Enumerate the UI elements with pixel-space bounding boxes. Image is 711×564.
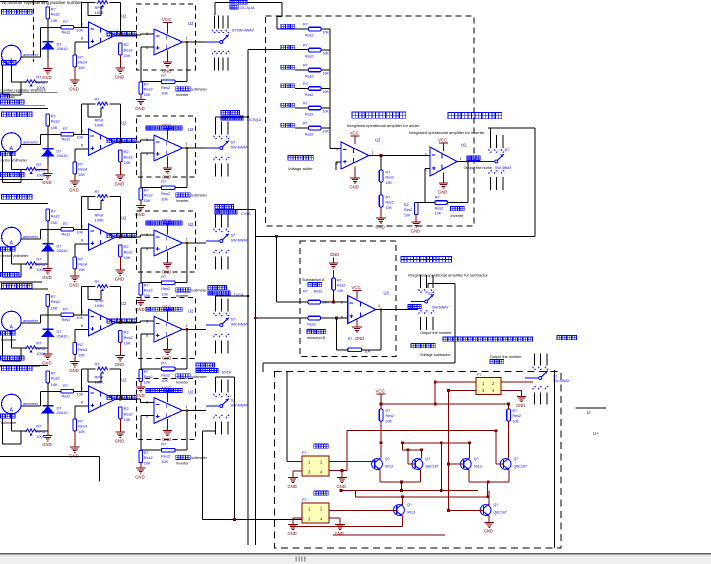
svg-text:Res2: Res2 — [314, 290, 322, 294]
wire row5 stage2 in — [141, 399, 154, 402]
svg-text:S7: S7 — [231, 318, 236, 322]
label voltage subtractor — [411, 344, 451, 358]
node row3 — [41, 228, 61, 230]
svg-text:Res2: Res2 — [435, 207, 443, 211]
svg-text:SW-6WAY: SW-6WAY — [231, 239, 249, 243]
wire row2 op2 out — [183, 147, 207, 149]
svg-text:D7: D7 — [57, 245, 62, 249]
svg-text:GND: GND — [337, 484, 346, 489]
resistor R2 out row3 — [119, 245, 133, 260]
transistor Q6 — [480, 503, 507, 516]
svg-text:Res2: Res2 — [513, 414, 521, 418]
resistor R7 fb row4 — [161, 361, 175, 383]
svg-text:Res2: Res2 — [62, 138, 71, 142]
svg-text:R7: R7 — [51, 7, 56, 11]
resistor R7 series row4 — [61, 307, 84, 322]
svg-text:10K: 10K — [144, 199, 151, 203]
transistor Q4 — [500, 457, 527, 470]
wire q34 emitters — [469, 470, 509, 483]
wire row4 diode to gnd — [47, 336, 49, 354]
label addend B — [281, 45, 295, 49]
svg-text:Res2: Res2 — [144, 456, 153, 460]
wire row2 node to diode — [47, 134, 49, 149]
wire q1 coll — [380, 443, 382, 459]
ground q6 — [484, 522, 494, 533]
svg-text:R7: R7 — [78, 163, 83, 167]
wire row5 res4 gnd — [74, 431, 76, 447]
svg-text:GND: GND — [350, 184, 359, 189]
wire rail490 — [340, 482, 478, 492]
ground row4 fb — [135, 387, 145, 398]
svg-text:Res2: Res2 — [51, 12, 60, 16]
resistor R7 sub fb — [348, 348, 372, 354]
wire row4 plus input — [75, 329, 89, 342]
power VCC bottom — [376, 388, 386, 404]
label addend D — [281, 84, 295, 88]
svg-text:6: 6 — [341, 316, 343, 320]
ground row2 fb — [135, 206, 145, 217]
label net E — [196, 363, 232, 375]
wire sub out loop — [263, 283, 455, 363]
svg-text:GND: GND — [376, 224, 385, 229]
wire row1 stage2 in — [141, 34, 154, 35]
wire row2 fb — [141, 148, 187, 188]
svg-text:10K: 10K — [124, 256, 131, 260]
svg-text:Q8C187: Q8C187 — [494, 511, 507, 515]
svg-text:Integrated operational amplifi: Integrated operational amplifier for inv… — [409, 130, 485, 135]
svg-text:100K: 100K — [36, 268, 45, 272]
label header r4 — [2, 284, 33, 289]
svg-text:R7: R7 — [161, 443, 166, 447]
svg-text:100K: 100K — [95, 10, 105, 15]
svg-text:GND: GND — [335, 531, 344, 536]
resistor R7 row2 — [46, 114, 60, 130]
svg-text:R7: R7 — [51, 209, 56, 213]
svg-text:6: 6 — [81, 37, 83, 41]
potentiometer RPot row2 — [11, 163, 47, 182]
svg-text:Res2: Res2 — [124, 49, 133, 53]
wire trunk sub A — [277, 236, 309, 302]
svg-text:10K: 10K — [323, 72, 330, 76]
wire row1 inner rail — [88, 3, 101, 16]
svg-text:ammeter: ammeter — [23, 235, 39, 239]
resistor R7 series row3 — [61, 222, 84, 237]
resistor R2 out row1 — [119, 43, 133, 58]
node row5 — [41, 390, 61, 392]
ground relayA 1 — [288, 478, 298, 489]
svg-text:GND: GND — [438, 189, 447, 194]
svg-text:10K: 10K — [78, 430, 85, 434]
ground row2 res4 — [69, 181, 79, 192]
svg-text:6: 6 — [81, 324, 83, 328]
wire row3 to opamp — [74, 228, 89, 230]
svg-text:1: 1 — [186, 405, 188, 409]
svg-text:Inverter: Inverter — [176, 93, 190, 97]
relay P7 — [476, 373, 501, 395]
svg-text:Integrated operational amplifi: Integrated operational amplifier for add… — [347, 123, 420, 128]
svg-text:20A10: 20A10 — [57, 249, 68, 253]
label row1 opamp tag — [107, 32, 136, 36]
transistor Q1 — [372, 457, 393, 470]
op-amp U2 sub — [341, 291, 390, 324]
svg-text:R2: R2 — [124, 43, 129, 47]
svg-text:U2: U2 — [188, 127, 194, 132]
wire row3 r2 gnd — [119, 257, 121, 270]
resistor R7 addend C — [303, 64, 329, 79]
resistor R7 addend E — [303, 102, 329, 117]
svg-text:S7: S7 — [505, 148, 510, 152]
wire x448 — [448, 391, 450, 511]
wire row3 ammeter out — [21, 229, 41, 239]
svg-text:10K: 10K — [365, 350, 372, 354]
resistor R2 out row4 — [119, 330, 133, 345]
svg-text:ammeter: ammeter — [23, 319, 39, 323]
svg-text:U2: U2 — [121, 121, 127, 126]
label row1 header — [2, 10, 33, 15]
svg-text:Inverter: Inverter — [451, 214, 465, 218]
svg-text:10K: 10K — [323, 90, 330, 94]
ground adder div — [376, 207, 386, 229]
svg-text:DC A(1A: DC A(1A — [241, 6, 256, 10]
ground adder opamp — [350, 167, 360, 190]
label row1 ammeter cjk — [2, 61, 16, 65]
svg-text:CV1A: CV1A — [241, 212, 251, 216]
svg-text:R7: R7 — [36, 342, 41, 346]
svg-text:SW-4WAY: SW-4WAY — [495, 166, 512, 170]
power VCC row5 — [162, 386, 172, 403]
ground row5 op2 — [162, 419, 172, 442]
wire row4 fbres gnd — [140, 381, 142, 387]
svg-text:R7: R7 — [95, 363, 100, 367]
wire row4 node to diode — [47, 315, 49, 330]
svg-text:Res4: Res4 — [78, 61, 87, 65]
op-amp U2 row3 — [81, 216, 127, 251]
wire row3 feedback rail — [82, 196, 121, 237]
resistor R7 Res4 row5 — [73, 419, 87, 434]
wire vcc res — [380, 403, 383, 445]
wire row3 ammeter bottom — [3, 247, 22, 277]
label addend F — [281, 123, 295, 127]
svg-text:Res2: Res2 — [161, 455, 170, 459]
svg-text:U2: U2 — [121, 301, 127, 306]
wire inv gndres — [416, 203, 425, 223]
wire row1 ammeter bottom — [3, 65, 22, 95]
wire sub fb — [336, 308, 382, 349]
wire row5 op2 minus — [141, 415, 154, 450]
svg-text:4R: 4R — [10, 96, 15, 100]
wire row2 to opamp — [74, 133, 89, 135]
label net B — [221, 111, 262, 123]
svg-text:GND: GND — [288, 484, 297, 489]
wire row4 op2 out — [183, 328, 207, 330]
svg-text:Res4: Res4 — [78, 168, 87, 172]
ground row3 diode — [42, 269, 52, 280]
wire row2 opamp1 out — [115, 141, 140, 144]
terminal U+ — [593, 431, 599, 436]
wire trunk relayB — [203, 377, 303, 521]
wire sub out — [376, 309, 418, 311]
resistor R7 gnd row1 — [139, 82, 153, 97]
svg-text:10K: 10K — [161, 379, 168, 383]
label row2 opamp tag — [107, 139, 136, 143]
svg-text:R7: R7 — [161, 275, 166, 279]
op-amp U2 row5 — [81, 378, 127, 413]
resistor R7 Res4 row2 — [73, 162, 87, 177]
resistor R7 addend A — [303, 23, 329, 38]
label header r3 — [2, 195, 33, 200]
svg-text:R7: R7 — [144, 451, 149, 455]
svg-text:10K: 10K — [78, 66, 85, 70]
svg-text:GND: GND — [42, 75, 51, 80]
svg-text:10K: 10K — [323, 110, 330, 114]
svg-text:S7: S7 — [428, 292, 433, 296]
wire row2 R7 to node — [47, 126, 49, 135]
resistor R7 inv fb — [435, 196, 448, 216]
svg-text:Output the number: Output the number — [490, 355, 522, 359]
label output bottom — [490, 355, 522, 364]
label voltage adder text — [288, 156, 313, 172]
svg-text:R7: R7 — [337, 279, 342, 283]
wire row4 res4 gnd — [74, 354, 76, 361]
resistor R7 adder div2 — [379, 195, 394, 210]
resistor R7 fb row1 — [161, 74, 175, 96]
label net A — [230, 1, 255, 11]
ground row3 res4 — [69, 276, 79, 287]
svg-text:Res2: Res2 — [144, 88, 153, 92]
resistor R7 bottom left — [379, 409, 394, 424]
wire row2 inner rail — [88, 104, 101, 117]
svg-text:GND: GND — [42, 275, 51, 280]
label net D — [208, 286, 244, 298]
resistor R2 out row2 — [119, 150, 133, 165]
svg-text:1: 1 — [378, 304, 380, 308]
wire addend D — [216, 89, 309, 299]
resistor R7 series row2 — [61, 127, 84, 142]
svg-text:10K: 10K — [435, 212, 442, 216]
wire row4 stage2 in — [141, 321, 154, 323]
wire inv fb — [447, 128, 490, 203]
svg-text:Q?: Q? — [494, 503, 499, 507]
svg-text:Res2: Res2 — [386, 414, 394, 418]
dashed box subtractor — [300, 241, 396, 357]
label row4 opamp tag — [107, 319, 136, 323]
svg-text:RPot: RPot — [36, 347, 45, 351]
svg-text:R7: R7 — [36, 76, 41, 80]
wire row1 op2 out — [183, 41, 207, 43]
wire row3 R7 to node — [47, 221, 49, 230]
svg-text:R7: R7 — [303, 122, 308, 126]
svg-text:100K: 100K — [95, 218, 105, 223]
svg-text:R2: R2 — [124, 245, 129, 249]
ground sub op — [348, 320, 365, 342]
wire addend F — [295, 127, 309, 129]
diode D7 row4 — [42, 329, 67, 338]
svg-text:Res4: Res4 — [78, 263, 87, 267]
resistor R7 series row1 — [61, 20, 84, 35]
resistor R7 row5 — [46, 371, 60, 387]
svg-text:Res2: Res2 — [305, 33, 313, 37]
wire addend E — [216, 108, 309, 380]
svg-text:U2: U2 — [375, 138, 381, 143]
svg-text:SW-6WAY: SW-6WAY — [432, 306, 449, 310]
label inverter header row2 — [146, 126, 182, 130]
diode D7 row2 — [42, 149, 67, 158]
wire row4 r2 gnd — [119, 342, 121, 355]
wire row5 node to diode — [47, 391, 49, 406]
ground row5 r2 — [115, 432, 125, 443]
wire row5 inner rail — [88, 369, 101, 382]
svg-text:R7: R7 — [386, 409, 391, 413]
svg-text:10K: 10K — [124, 161, 131, 165]
svg-text:Res2: Res2 — [124, 336, 133, 340]
svg-text:R7: R7 — [36, 163, 41, 167]
potentiometer RPot feedback row4 — [95, 280, 108, 308]
potentiometer RPot row1 — [11, 76, 47, 95]
wire q6 emit — [488, 516, 490, 523]
resistor R7 gnd row4 — [139, 369, 153, 384]
wire q6 base — [447, 509, 483, 512]
svg-text:Res2: Res2 — [51, 214, 60, 218]
dashed box inverter row2 — [137, 116, 196, 177]
svg-text:R2: R2 — [124, 331, 129, 335]
svg-text:Res2: Res2 — [161, 287, 170, 291]
svg-text:100K: 100K — [36, 173, 45, 177]
svg-text:Q?: Q? — [385, 457, 390, 461]
svg-text:2: 2 — [341, 301, 343, 305]
svg-text:10K: 10K — [404, 214, 411, 218]
svg-text:Res2: Res2 — [161, 86, 170, 90]
svg-text:GND: GND — [115, 75, 124, 80]
svg-text:Voltage subtractor: Voltage subtractor — [420, 353, 451, 357]
wire addend A to bus — [321, 28, 330, 30]
svg-text:D7: D7 — [57, 150, 62, 154]
wire row4 ammeter bottom — [3, 331, 22, 361]
wire q2 coll — [402, 443, 423, 459]
dashed frame stub — [33, 0, 35, 62]
resistor R7 addend F — [303, 122, 329, 137]
dashed box bottom — [275, 372, 561, 549]
svg-text:Res2: Res2 — [386, 176, 394, 180]
op-amp U2 inverter row2 — [146, 127, 194, 161]
svg-text:GND: GND — [330, 252, 339, 257]
ground inverter2 — [438, 173, 448, 195]
svg-text:Voltmeter: Voltmeter — [1, 421, 18, 425]
wire q5 base — [329, 510, 397, 512]
label foot r4 — [0, 331, 40, 366]
wire row1 ammeter out — [21, 27, 41, 57]
svg-text:EV1A: EV1A — [222, 371, 232, 375]
ground subtractor top — [329, 252, 340, 268]
ammeter row2 — [2, 133, 39, 153]
wire row2 stage2 in — [141, 140, 154, 142]
svg-text:R7: R7 — [95, 98, 100, 102]
wire P7 right1 — [501, 381, 533, 383]
svg-text:Inverter: Inverter — [176, 199, 190, 203]
svg-text:R7: R7 — [51, 295, 56, 299]
resistor R7 fb row5 — [161, 443, 175, 465]
wire row3 diode to gnd — [47, 251, 49, 269]
resistor R7 addend B — [303, 44, 329, 59]
resistor R7 addend D — [303, 82, 329, 97]
svg-text:GND: GND — [115, 182, 124, 187]
wire row1 res4 gnd — [74, 67, 76, 80]
wire bias row2 — [0, 107, 48, 109]
svg-text:R7: R7 — [161, 361, 166, 365]
svg-text:STSW-4WAY: STSW-4WAY — [232, 29, 255, 33]
svg-text:R7: R7 — [63, 127, 68, 131]
svg-text:GND: GND — [42, 442, 51, 447]
svg-text:VCC: VCC — [438, 138, 447, 143]
ammeter row5 — [2, 394, 39, 414]
wire sub gnd res — [333, 270, 335, 302]
svg-text:GND: GND — [69, 188, 78, 193]
svg-text:10K: 10K — [124, 418, 131, 422]
op-amp U2 inverter row1 — [146, 21, 194, 55]
svg-text:VCC: VCC — [162, 17, 171, 22]
svg-text:Res4: Res4 — [78, 348, 87, 352]
svg-text:100K: 100K — [95, 123, 105, 128]
svg-text:Res2: Res2 — [404, 208, 412, 212]
svg-text:R7: R7 — [144, 189, 149, 193]
ammeter row1 — [2, 45, 39, 65]
ground P7 — [516, 397, 526, 408]
label row5 opamp tag — [107, 396, 136, 400]
resistor R7 bottom right — [507, 409, 521, 424]
svg-text:10K: 10K — [78, 354, 85, 358]
label addend C — [281, 65, 295, 69]
wire row5 fbres gnd — [140, 463, 142, 469]
svg-text:6: 6 — [81, 401, 83, 405]
svg-text:10K: 10K — [51, 126, 58, 130]
svg-text:VCC: VCC — [352, 285, 361, 290]
svg-text:Res2: Res2 — [144, 194, 153, 198]
svg-text:Res2: Res2 — [124, 156, 133, 160]
wire row1 fbres gnd — [140, 94, 142, 100]
svg-text:U2: U2 — [188, 222, 194, 227]
svg-text:10K: 10K — [76, 135, 83, 139]
svg-text:R7: R7 — [303, 23, 308, 27]
svg-text:voltmeter: voltmeter — [191, 88, 207, 92]
wire row5 r2 gnd — [119, 419, 121, 432]
power VCC row1 — [162, 17, 172, 34]
svg-text:R7: R7 — [303, 64, 308, 68]
switch S7 adder out — [481, 135, 509, 190]
ground row4 r2 — [115, 356, 125, 367]
svg-text:10K: 10K — [513, 420, 520, 424]
svg-text:R7: R7 — [303, 44, 308, 48]
switch S7 row3 — [206, 215, 249, 270]
wire row3 node to diode — [47, 229, 49, 244]
svg-text:20A10: 20A10 — [57, 154, 68, 158]
svg-text:Res2: Res2 — [62, 233, 71, 237]
switch S7 row1 — [206, 16, 255, 71]
wire row1 to opamp — [74, 26, 89, 28]
svg-text:number regulator 8080inch: number regulator 8080inch — [1, 89, 46, 93]
svg-text:GND: GND — [69, 283, 78, 288]
op-amp U2 inverter2 — [425, 143, 468, 177]
node row2 — [41, 133, 61, 135]
power VCC row4 — [162, 304, 172, 321]
ground relayB 1 — [288, 525, 298, 536]
potentiometer RPot row3 — [11, 258, 47, 277]
svg-text:S?: S? — [553, 375, 557, 379]
wire q3 base — [447, 463, 463, 466]
wire adder out bus — [255, 128, 535, 238]
svg-text:9013: 9013 — [474, 465, 482, 469]
svg-text:10K: 10K — [76, 230, 83, 234]
power VCC inverter2 — [438, 138, 448, 152]
wire addend F to bus — [321, 127, 330, 129]
